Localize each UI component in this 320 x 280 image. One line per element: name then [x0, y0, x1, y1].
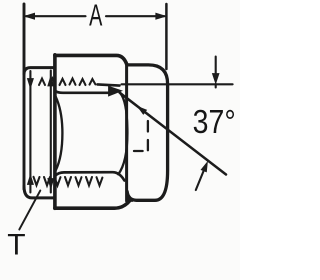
hidden flare cone dash lower	[147, 140, 149, 150]
line-B down arrowhead (bottom)	[48, 179, 54, 189]
hex bottom edge with right corner curve	[55, 201, 130, 209]
horizontal angle reference line	[122, 83, 233, 85]
thread dimension line B	[50, 71, 52, 193]
dimension A right extension line	[165, 4, 168, 69]
leader arrow shaft to seat line	[196, 168, 205, 191]
hex top edge with right chamfer curve	[55, 55, 127, 64]
hidden flare cone horizontal dash	[134, 150, 143, 152]
top thread crest tail line to corner	[98, 84, 120, 85]
cap left edge (hex-cap boundary)	[125, 64, 128, 202]
inner-line down arrowhead (top)	[27, 79, 33, 89]
svg-text:A: A	[89, 0, 103, 32]
hidden flare cone dash upper	[147, 121, 149, 132]
37-degree flare seat line	[120, 93, 227, 175]
hex upper flat boundary	[55, 91, 114, 93]
dimension A left extension line / collar left edge	[23, 4, 26, 189]
inner-line up arrowhead (bottom)	[27, 175, 33, 185]
hex left edge	[53, 55, 57, 209]
collar bottom-left corner and bottom edge	[24, 186, 55, 198]
T label leader line	[19, 191, 40, 230]
dimension line A right segment	[106, 15, 165, 17]
arrowhead on seat line pointing to vertex	[138, 107, 147, 115]
middle flat right chamfer arc	[118, 93, 127, 175]
middle flat left chamfer arc	[56, 97, 63, 171]
cap bottom-left fillet	[127, 196, 132, 200]
svg-text:T: T	[7, 229, 25, 262]
line-B up arrowhead (top)	[48, 76, 54, 86]
down arrow shaft to reference line	[215, 57, 217, 88]
dimension line A left segment	[26, 15, 86, 17]
leader arrowhead touching seat line	[201, 162, 207, 172]
collar inner wall line	[29, 71, 31, 193]
dimension A left arrowhead	[25, 13, 35, 19]
cap outline	[127, 65, 168, 200]
svg-text:37°: 37°	[193, 103, 236, 141]
dimension A right arrowhead	[156, 13, 166, 19]
top thread caret row	[39, 78, 95, 85]
hex lower flat boundary with right droop	[55, 172, 124, 180]
down arrowhead to reference line	[212, 74, 219, 84]
bottom thread caret row	[34, 177, 103, 186]
hex upper boundary end arrowhead at corner	[109, 86, 122, 96]
collar top-left corner and top edge	[24, 68, 55, 74]
